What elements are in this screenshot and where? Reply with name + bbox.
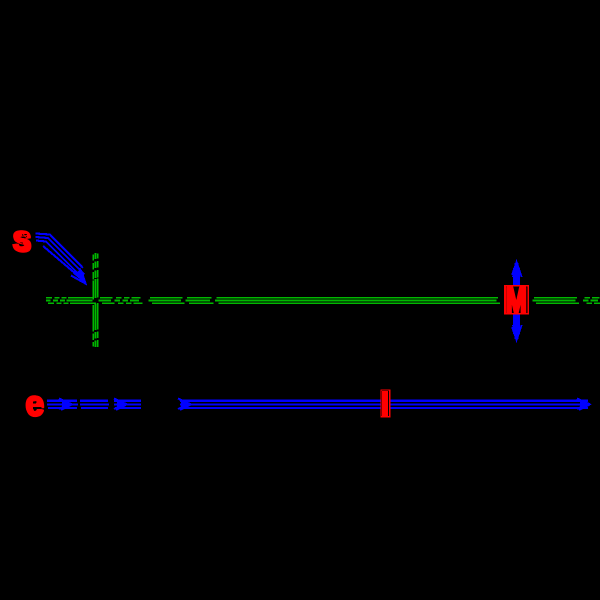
mirror label M xyxy=(506,282,527,321)
source label S xyxy=(12,226,32,258)
svg-text:M: M xyxy=(506,282,527,321)
arrowhead on e-ray at x=123 xyxy=(114,399,127,411)
arrowhead at right end of ray x=580 xyxy=(577,399,590,411)
optical axis (green dashed horizontal line) xyxy=(46,298,600,303)
arrow from S to lens (blue sketchy arrow) xyxy=(36,234,86,284)
arrowhead on e-ray at x=68 xyxy=(59,399,72,411)
lens plane (green dashed vertical line) xyxy=(93,253,97,347)
image ray segment from e (blue, arrowheads pointing right) xyxy=(47,401,141,408)
image label box xyxy=(381,390,390,417)
mirror label box xyxy=(505,285,529,314)
eye label e xyxy=(25,383,44,424)
image ray long segment (blue, to right edge) xyxy=(180,401,589,408)
svg-text:S: S xyxy=(14,228,32,258)
mirror translation arrow (blue double-headed vertical arrow) xyxy=(512,261,522,342)
arrowhead on long ray at x=187 xyxy=(178,399,191,411)
image label I xyxy=(383,392,388,415)
